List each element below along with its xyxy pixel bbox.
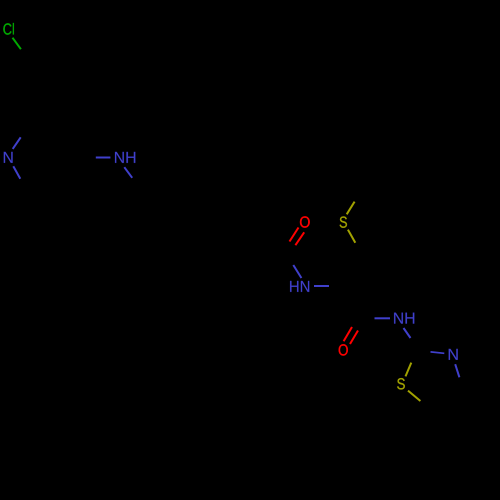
wire half-bond NH-CH2 (down-right): [124, 167, 132, 178]
atom label NH (thiazole-amide nitrogen): [394, 313, 414, 324]
atom label N1 (quinoline ring nitrogen): [4, 152, 13, 163]
wire half-bond C4-NH (horizontal): [96, 157, 111, 159]
wire second C=O double bond line 1: [344, 327, 352, 341]
wire half-bond NH-C2 thiazole (down-right): [404, 328, 411, 338]
wire half-bond CA-NH (horizontal): [375, 317, 391, 319]
wire half-bond S-CH2 (down-right): [348, 230, 355, 243]
atom label S (thioether sulfur): [340, 216, 347, 227]
wire half-bond N3-C4 (down): [455, 364, 459, 377]
wire half-bond Cl-C7: [13, 38, 21, 50]
wire half-bond S1-C2 (up-right): [406, 363, 412, 377]
wire C=O double bond line 1: [290, 228, 299, 242]
wire half-bond N1-C8a (down-right): [13, 166, 20, 179]
wire half-bond N1-C2 (up-right): [13, 137, 21, 149]
atom label N (thiazole ring N3): [449, 349, 458, 360]
atom label HN (amide nitrogen): [290, 281, 309, 292]
atom label NH (secondary amine): [115, 152, 135, 163]
atom label S (thiazole ring S1): [397, 378, 405, 389]
wire half-bond C2-N3 thiazole: [431, 352, 445, 353]
atom label O (second amide carbonyl oxygen): [339, 344, 348, 355]
wire half-bond S-CH3 (up-right): [347, 202, 355, 215]
wire half-bond HN-CA (horizontal): [314, 285, 329, 287]
wire half-bond S1-C5 (down-right): [408, 391, 420, 401]
atom label O (amide carbonyl oxygen): [300, 216, 310, 227]
wire second C=O double bond line 2: [350, 331, 358, 345]
wire C=O double bond line 2: [295, 232, 304, 245]
atom label Cl (chlorine substituent): [3, 23, 14, 35]
wire half-bond C(=O)-NH (down to HN): [293, 265, 301, 278]
